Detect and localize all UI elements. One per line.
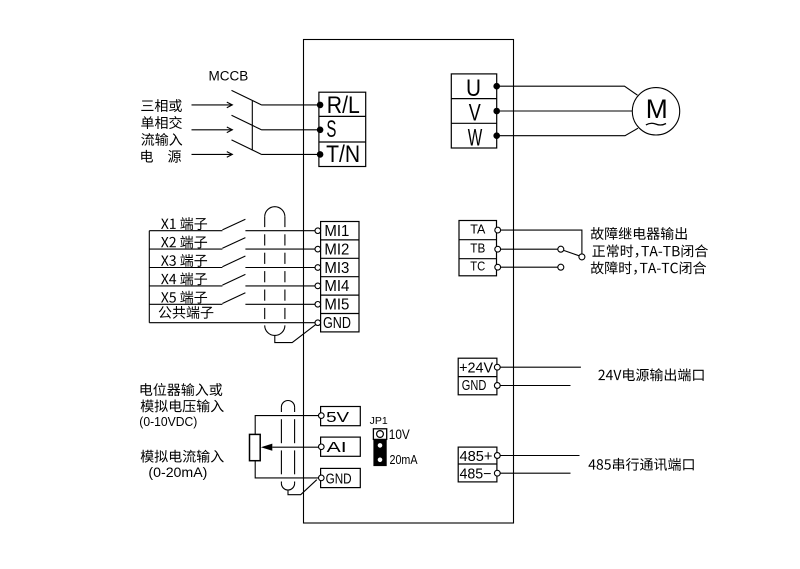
junction dot U [493,83,500,90]
svg-text:MI3: MI3 [324,260,349,277]
relay common contact circle [579,254,585,260]
wire TB [501,248,558,250]
terminal box 5V [321,407,361,426]
wire to terminal R/L [262,104,320,106]
shielded cable capsule (analog inputs) [281,400,294,490]
wire X1 segment [149,230,222,232]
wire 485+ [500,455,579,457]
svg-text:S: S [326,116,336,143]
svg-text:(0-20mA): (0-20mA) [148,464,207,480]
svg-text:485+: 485+ [460,449,493,465]
terminal circle GND [315,320,321,326]
switch X5 blade [222,293,245,304]
wire W to motor [497,128,638,136]
wire AI to wiper [272,446,318,448]
shield drain wire to GND [275,324,316,342]
wire to terminal S [262,129,320,131]
wire GND (24V) [500,385,570,387]
svg-text:GND: GND [326,470,352,487]
annotation X3 端子 [161,254,207,267]
terminal circle TC [495,264,501,270]
motor AC tilde [646,123,666,125]
svg-text:MI2: MI2 [324,241,349,258]
wire X4 to MI4 [245,285,317,287]
terminal circle GND (24V) [494,383,500,389]
wire X2 segment [149,248,222,250]
wire 5V to potentiometer top [255,416,318,435]
circuit breaker MCCB pole 1 blade [232,90,262,105]
annotation 正常时 TA-TB闭合 [592,244,707,257]
annotation 24V电源输出端口 [598,368,703,381]
wire TC [501,266,558,268]
wire potentiometer bottom to GND [255,461,318,478]
terminal circle 5V [319,413,325,419]
wire X1 to MI1 [245,230,317,232]
svg-text:485−: 485− [460,466,492,482]
svg-text:10V: 10V [389,426,411,442]
svg-text:T/N: T/N [326,141,360,168]
terminal circle AI [319,444,325,450]
annotation AC input 三相或单相交流输入电源 [141,99,182,163]
annotation 公共端子 [159,306,214,319]
svg-text:TB: TB [470,240,485,255]
terminal circle +24V [494,364,500,370]
wire X3 segment [149,267,222,269]
svg-text:TC: TC [470,259,485,274]
relay blade TA-TB [564,250,580,255]
svg-text:V: V [469,100,481,127]
wire input phase 3 arrow [192,153,233,155]
wire common to GND [149,322,317,324]
inverter U1 outline [304,40,514,524]
wire 485- [500,472,570,474]
annotation X4 端子 [161,272,207,285]
terminal circle MI4 [315,283,321,289]
svg-text:AI: AI [327,439,347,456]
junction dot S [317,127,324,134]
wire TA common [501,230,582,254]
terminal circle 485+ [494,453,500,459]
svg-text:(0-10VDC): (0-10VDC) [139,414,197,429]
svg-text:+24V: +24V [459,360,493,376]
annotation X1 端子 [161,217,207,230]
breaker tie bar [251,101,253,151]
relay contact circle TC [558,264,564,270]
motor M circle [632,88,679,135]
jumper JP1 block [373,429,386,466]
svg-text:MCCB: MCCB [209,69,249,84]
terminal box GND (analog) [321,468,361,487]
svg-text:MI4: MI4 [324,278,349,295]
circuit breaker MCCB pole 3 blade [232,140,262,155]
terminal circle 485- [494,470,500,476]
junction dot T/N [317,151,324,158]
annotation 故障继电器输出 [591,227,687,240]
svg-text:20mA: 20mA [390,452,418,467]
wire X5 to MI5 [245,303,317,305]
wire V to motor [497,110,633,112]
svg-text:W: W [468,124,483,151]
switch X4 blade [222,274,245,285]
switch X1 blade [222,219,245,230]
svg-text:5V: 5V [326,409,349,426]
junction dot R/L [317,102,324,109]
svg-text:U: U [466,75,481,102]
svg-text:TA: TA [470,222,485,237]
switch X3 blade [222,256,245,267]
terminal circle MI5 [315,302,321,308]
terminal circle MI2 [315,246,321,252]
relay contact circle TB [558,246,564,252]
shield drain wire to GND (analog) [288,480,317,495]
wire X5 segment [149,303,222,305]
annotation 模拟电流输入 [141,450,224,463]
annotation 485串行通讯端口 [588,458,693,471]
svg-text:JP1: JP1 [370,415,388,427]
svg-text:MI1: MI1 [324,223,349,240]
wire U to motor [497,86,638,95]
terminal circle TA [495,227,501,233]
terminal block TA TB TC [459,221,497,276]
terminal box AI [321,437,361,456]
terminal circle MI3 [315,265,321,271]
potentiometer RP body [250,434,261,460]
terminal block MI1-MI5 GND [321,222,359,332]
terminal circle GND (analog) [319,475,325,481]
potentiometer wiper arrow [261,444,272,451]
wire X4 segment [149,285,222,287]
wire X2 to MI2 [245,248,317,250]
wire +24V [500,366,581,368]
annotation X2 端子 [161,236,207,249]
terminal block R/L S T/N [319,92,366,166]
terminal block U V W [451,74,496,148]
svg-text:M: M [646,94,668,124]
terminal circle TB [495,246,501,252]
svg-text:GND: GND [323,315,351,332]
annotation 电位器输入或 [141,383,223,396]
wire input phase 1 arrow [192,104,233,106]
wire X3 to MI3 [245,267,317,269]
svg-text:GND: GND [462,378,487,394]
switch X2 blade [222,238,245,249]
circuit breaker MCCB pole 2 blade [232,115,262,130]
annotation X5 端子 [161,291,207,304]
junction dot V [493,108,500,115]
terminal circle MI1 [315,228,321,234]
annotation 模拟电压输入 [141,399,224,412]
terminal block 485+ 485- [458,447,497,482]
wire to terminal T/N [262,153,320,155]
annotation 故障时 TA-TC闭合 [591,261,706,274]
digital input left bus wire [148,231,150,323]
terminal block +24V GND [458,358,497,395]
wire input phase 2 arrow [192,129,233,131]
shielded cable capsule (digital inputs) [265,207,285,336]
junction dot W [493,132,500,139]
svg-text:MI5: MI5 [324,297,349,314]
